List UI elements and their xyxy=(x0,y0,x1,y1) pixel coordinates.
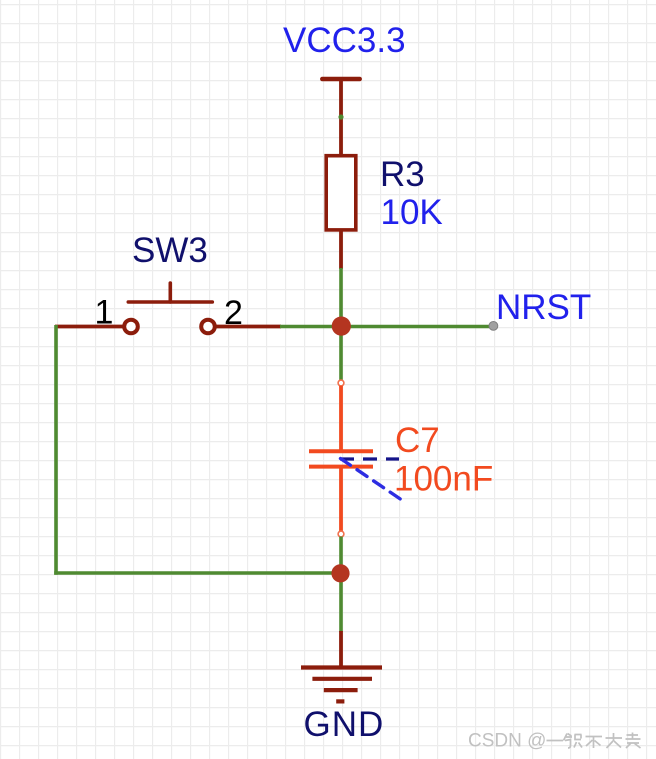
svg-text:SW3: SW3 xyxy=(132,231,208,270)
node (pin connection dot) xyxy=(338,114,343,119)
label GND xyxy=(304,705,385,744)
value 10K xyxy=(381,193,443,232)
svg-text:GND: GND xyxy=(304,705,385,744)
junction xyxy=(331,564,349,582)
label R3 xyxy=(380,155,425,194)
svg-text:R3: R3 xyxy=(380,155,425,194)
wire xyxy=(339,537,343,577)
wire xyxy=(280,325,489,329)
pin endpoint circle xyxy=(338,531,344,537)
wire xyxy=(55,325,124,329)
wire xyxy=(54,325,58,575)
wire xyxy=(339,573,343,632)
net label VCC3.3 xyxy=(283,21,406,60)
value 100nF xyxy=(394,460,493,499)
svg-text:NRST: NRST xyxy=(496,288,591,327)
wire xyxy=(339,268,343,330)
power flag VCC3.3 xyxy=(322,79,359,117)
node NRST endpoint xyxy=(489,322,498,331)
label SW3 xyxy=(132,231,208,270)
capacitor C7 xyxy=(309,386,373,532)
wire xyxy=(339,330,343,380)
pin number 1 xyxy=(95,294,114,332)
watermark xyxy=(468,731,641,752)
wire xyxy=(54,571,341,575)
net label NRST xyxy=(496,288,591,327)
junction xyxy=(332,317,351,336)
resistor R3 xyxy=(326,156,356,269)
ground xyxy=(301,631,382,701)
pin endpoint circle xyxy=(338,380,344,386)
svg-text:10K: 10K xyxy=(381,193,443,232)
svg-text:2: 2 xyxy=(224,294,243,332)
svg-text:C7: C7 xyxy=(395,421,440,460)
svg-text:VCC3.3: VCC3.3 xyxy=(283,21,406,60)
label C7 xyxy=(395,421,440,460)
svg-text:100nF: 100nF xyxy=(394,460,493,499)
svg-text:CSDN @: CSDN @ xyxy=(468,731,546,752)
leader line to label C7 xyxy=(340,457,399,460)
wire xyxy=(339,115,343,156)
leader line to value 100nF xyxy=(341,459,403,501)
pin number 2 xyxy=(224,294,243,332)
switch SW3 xyxy=(124,283,281,333)
